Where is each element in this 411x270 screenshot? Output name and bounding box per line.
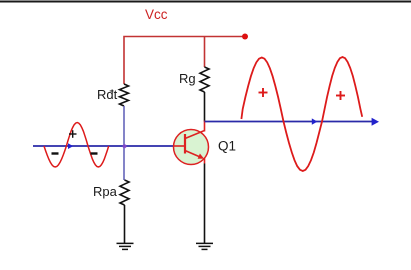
wire Rg bottom to collector node [204, 92, 206, 122]
Q1 emitter arrowhead [198, 154, 204, 159]
Q1 emitter lead [185, 151, 203, 159]
output mid arrowhead [312, 118, 318, 124]
Q1 collector lead [185, 131, 205, 139]
Q1 base lead [174, 145, 186, 147]
output plus label right [336, 91, 345, 100]
Q1 base bar [184, 134, 186, 154]
wire input signal line [33, 145, 174, 147]
wire collector node to transistor collector [204, 121, 206, 132]
transistor Q1 body [174, 130, 209, 165]
svg-text:Rđt: Rđt [97, 87, 118, 102]
output end arrowhead [372, 118, 379, 126]
input minus label right [91, 152, 98, 154]
output sine wave [241, 57, 362, 171]
input plus label [69, 130, 77, 138]
resistor Rđt [120, 84, 129, 106]
input minus label left [52, 152, 59, 154]
resistor Rg [200, 67, 209, 92]
wire emitter to ground [204, 164, 206, 244]
wire Rđt bottom to base node [123, 106, 125, 180]
wire Vcc rail branch to Rg [204, 37, 206, 68]
wire transistor emitter down segment [204, 157, 206, 164]
output plus label left [259, 88, 268, 97]
svg-text:Q1: Q1 [218, 139, 236, 154]
top border frame line [0, 1, 411, 3]
resistor Rpa [120, 180, 129, 205]
input sine wave [44, 123, 109, 168]
wire Rpa to ground [124, 205, 126, 243]
wire Vcc rail [124, 37, 245, 85]
wire output signal line [205, 121, 377, 123]
node base junction dot [123, 144, 127, 148]
input arrowhead [68, 143, 73, 149]
node Vcc terminal dot [242, 34, 248, 40]
svg-text:Vcc: Vcc [145, 7, 168, 22]
svg-text:Rpa: Rpa [93, 184, 118, 199]
svg-text:Rg: Rg [179, 71, 196, 86]
ground under Rpa [117, 243, 134, 249]
ground under emitter [196, 243, 213, 249]
